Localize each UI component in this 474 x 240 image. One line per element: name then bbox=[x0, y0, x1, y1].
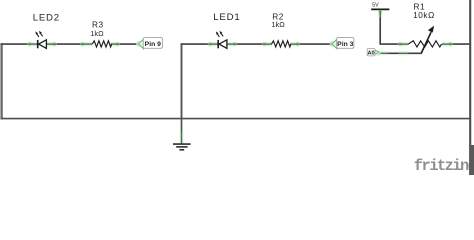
resistor R3 zigzag bbox=[92, 41, 111, 47]
node R3 left pin bbox=[80, 42, 92, 46]
resistor R2 zigzag bbox=[272, 41, 291, 47]
wire LED1 anode to R2 bbox=[236, 43, 264, 45]
wire left vertical (ground net left side) bbox=[0, 43, 2, 119]
wire 5V vertical bbox=[379, 10, 381, 44]
node LED1 cathode pin bbox=[208, 42, 218, 46]
wire R3 to Pin 9 label bbox=[118, 43, 139, 45]
node R1 right pin bbox=[442, 42, 453, 46]
svg-text:5V: 5V bbox=[372, 2, 379, 8]
svg-text:LED2: LED2 bbox=[33, 12, 60, 23]
wire middle vertical to rail bbox=[181, 43, 183, 118]
wire LED1 cathode to middle vertical bbox=[181, 43, 210, 45]
svg-text:R3: R3 bbox=[92, 20, 104, 30]
svg-text:LED1: LED1 bbox=[213, 12, 240, 23]
node LED2 cathode pin bbox=[27, 42, 37, 46]
net label A0 bbox=[367, 49, 381, 57]
ground symbol bbox=[173, 131, 191, 150]
net label Pin 9 bbox=[136, 38, 162, 49]
potentiometer R1 wiper arrow bbox=[421, 26, 434, 54]
node LED1 anode pin bbox=[227, 42, 237, 46]
window edge bottom-right shade bbox=[469, 145, 474, 175]
svg-text:Pin 9: Pin 9 bbox=[145, 41, 161, 48]
svg-text:A0: A0 bbox=[368, 50, 375, 56]
node A0 pin bbox=[379, 51, 389, 55]
node R2 right pin bbox=[290, 42, 300, 46]
LED D2 symbol bbox=[35, 31, 46, 49]
svg-text:fritzing: fritzing bbox=[414, 157, 474, 175]
svg-text:R1: R1 bbox=[414, 2, 426, 12]
wire LED2 cathode to left rail bbox=[1, 43, 30, 45]
svg-text:1kΩ: 1kΩ bbox=[90, 29, 104, 38]
wire LED2 anode to R3 bbox=[55, 43, 82, 45]
node R3 right pin bbox=[111, 42, 120, 46]
net label Pin 3 bbox=[330, 38, 354, 49]
svg-text:Pin 3: Pin 3 bbox=[337, 41, 353, 48]
window edge right bbox=[469, 0, 471, 175]
wire R2 to Pin 3 label bbox=[298, 43, 332, 45]
node LED2 anode pin bbox=[46, 42, 56, 46]
node R1 wiper pin bbox=[399, 51, 409, 55]
node R1 left pin bbox=[398, 42, 409, 46]
svg-text:10kΩ: 10kΩ bbox=[413, 11, 435, 20]
power symbol 5V bbox=[371, 2, 389, 17]
wire bottom ground rail bbox=[1, 118, 471, 120]
wire R1 right to right edge bbox=[451, 43, 471, 45]
LED D1 symbol bbox=[216, 31, 227, 49]
svg-text:1kΩ: 1kΩ bbox=[271, 20, 285, 29]
potentiometer R1 zigzag bbox=[409, 41, 442, 47]
wire ground stem bbox=[181, 118, 183, 132]
node R2 left pin bbox=[262, 42, 272, 46]
wire A0 to wiper bend bbox=[388, 28, 433, 53]
wire 5V corner to R1 left bbox=[380, 43, 400, 45]
